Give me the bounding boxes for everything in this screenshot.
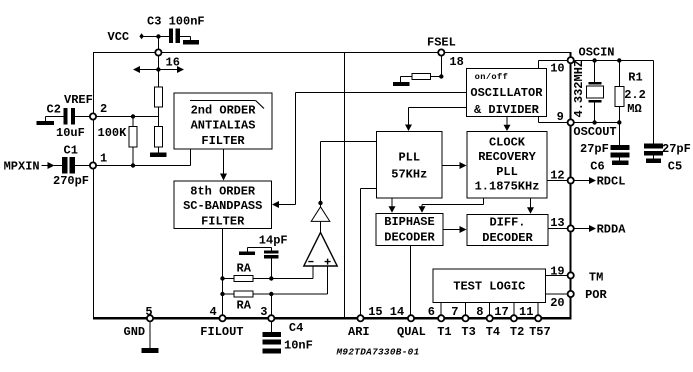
svg-text:T1: T1 (437, 325, 451, 339)
svg-text:OSCILLATOR: OSCILLATOR (470, 86, 543, 100)
svg-text:27pF: 27pF (662, 142, 691, 156)
svg-text:DECODER: DECODER (482, 231, 533, 245)
svg-text:on/off: on/off (475, 72, 509, 82)
svg-text:57KHz: 57KHz (391, 167, 427, 181)
svg-text:ANTIALIAS: ANTIALIAS (191, 119, 256, 133)
svg-text:M92TDA7330B-01: M92TDA7330B-01 (336, 347, 420, 358)
svg-text:2nd ORDER: 2nd ORDER (191, 103, 257, 117)
svg-text:RDDA: RDDA (597, 223, 627, 237)
svg-text:15 14: 15 14 (368, 305, 404, 319)
svg-text:19: 19 (550, 264, 564, 278)
svg-text:100K: 100K (98, 126, 128, 140)
svg-text:GND: GND (124, 325, 146, 339)
svg-text:C4: C4 (289, 321, 303, 335)
svg-text:8: 8 (476, 305, 483, 319)
svg-text:5: 5 (145, 305, 152, 319)
svg-text:12: 12 (550, 168, 564, 182)
svg-text:20: 20 (550, 296, 564, 310)
svg-text:TM: TM (589, 270, 603, 284)
svg-text:MΩ: MΩ (627, 102, 641, 116)
svg-text:FILOUT: FILOUT (200, 325, 243, 339)
svg-text:TEST LOGIC: TEST LOGIC (453, 279, 525, 293)
svg-text:T2: T2 (510, 325, 524, 339)
svg-text:OSCOUT: OSCOUT (573, 125, 616, 139)
svg-text:VREF: VREF (64, 93, 93, 107)
svg-text:10nF: 10nF (284, 339, 313, 353)
svg-text:BIPHASE: BIPHASE (384, 215, 434, 229)
svg-text:6: 6 (428, 305, 435, 319)
svg-text:C1: C1 (64, 143, 78, 157)
svg-text:8th ORDER: 8th ORDER (190, 184, 256, 198)
svg-text:RA: RA (237, 299, 252, 313)
svg-text:16: 16 (166, 56, 180, 70)
svg-text:9: 9 (557, 110, 564, 124)
svg-text:DECODER: DECODER (384, 230, 435, 244)
svg-text:POR: POR (585, 288, 607, 302)
svg-text:T57: T57 (529, 325, 551, 339)
svg-text:1.1875KHz: 1.1875KHz (475, 180, 540, 194)
svg-text:PLL: PLL (496, 165, 518, 179)
svg-text:SC-BANDPASS: SC-BANDPASS (183, 199, 262, 213)
svg-text:VCC: VCC (108, 30, 130, 44)
svg-text:10: 10 (550, 62, 564, 76)
svg-text:RA: RA (237, 262, 252, 276)
svg-text:FSEL: FSEL (427, 36, 456, 50)
svg-text:MPXIN: MPXIN (4, 159, 40, 173)
svg-text:14pF: 14pF (259, 233, 288, 247)
svg-text:PLL: PLL (398, 151, 420, 165)
svg-text:4.332MHZ: 4.332MHZ (572, 60, 586, 118)
svg-text:4: 4 (210, 305, 217, 319)
svg-text:& DIVIDER: & DIVIDER (474, 103, 540, 117)
svg-text:QUAL: QUAL (397, 325, 426, 339)
svg-text:FILTER: FILTER (201, 134, 245, 148)
svg-text:11: 11 (519, 305, 533, 319)
svg-text:T4: T4 (486, 325, 500, 339)
svg-text:3: 3 (260, 305, 267, 319)
svg-text:2: 2 (100, 102, 107, 116)
svg-text:T3: T3 (461, 325, 475, 339)
svg-text:270pF: 270pF (53, 174, 89, 188)
svg-text:CLOCK: CLOCK (489, 136, 526, 150)
svg-text:RDCL: RDCL (597, 175, 626, 189)
svg-text:7: 7 (451, 305, 458, 319)
svg-text:C5: C5 (668, 159, 682, 173)
svg-text:RECOVERY: RECOVERY (478, 150, 536, 164)
svg-text:10uF: 10uF (56, 126, 85, 140)
svg-text:17: 17 (494, 305, 508, 319)
svg-text:2.2: 2.2 (624, 88, 646, 102)
svg-text:27pF: 27pF (580, 142, 609, 156)
svg-text:OSCIN: OSCIN (579, 45, 615, 59)
svg-text:18: 18 (449, 55, 463, 69)
svg-text:FILTER: FILTER (201, 214, 245, 228)
svg-text:DIFF.: DIFF. (489, 215, 525, 229)
svg-text:13: 13 (550, 216, 564, 230)
svg-text:C3 100nF: C3 100nF (147, 15, 205, 29)
svg-text:1: 1 (100, 152, 107, 166)
svg-text:C6: C6 (590, 159, 604, 173)
svg-text:R1: R1 (628, 70, 642, 84)
svg-text:ARI: ARI (348, 325, 370, 339)
svg-text:C2: C2 (47, 102, 61, 116)
